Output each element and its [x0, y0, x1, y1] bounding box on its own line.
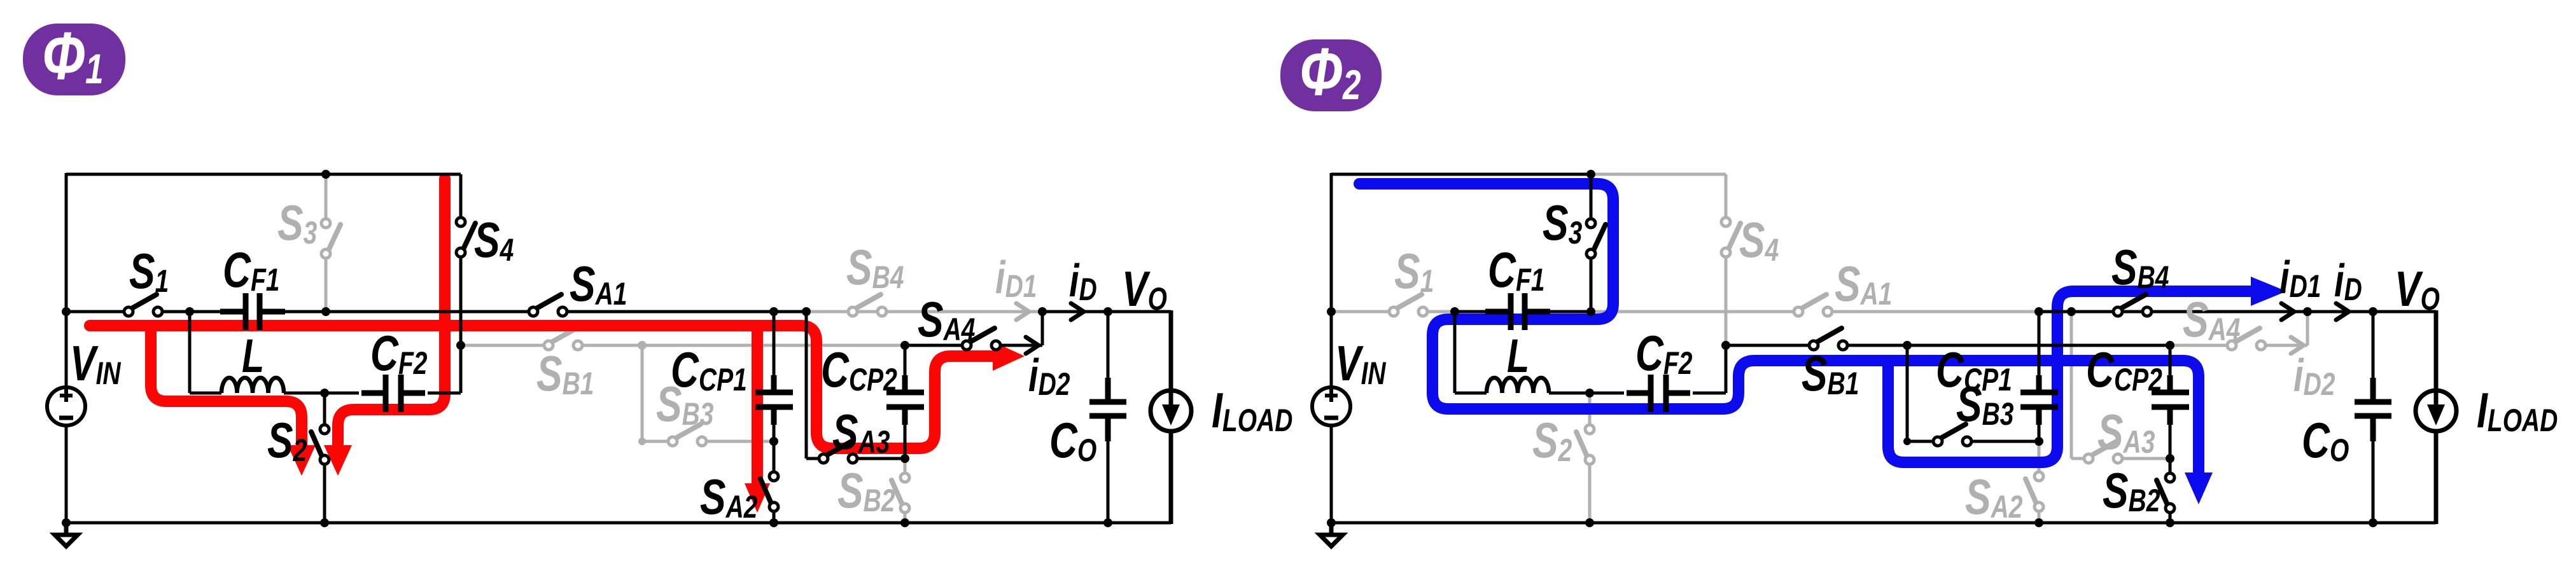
capacitor CF1: [220, 293, 285, 330]
inductor L: [221, 378, 284, 393]
svg-text:iD: iD: [2334, 255, 2362, 307]
wire S3 column upper: [1590, 174, 1593, 219]
wire rail2 SA1 to CCP1 top: [563, 310, 774, 314]
svg-text:CO: CO: [1049, 413, 1096, 468]
wire SA4 to corner: [1000, 344, 1042, 347]
label S3: [277, 195, 317, 251]
wire SB3 branch vertical: [641, 345, 644, 441]
wire SA4 corner up to output node: [1041, 312, 1044, 345]
wire rail2 node A to CF1: [1455, 310, 1488, 314]
svg-text:VIN: VIN: [70, 336, 122, 391]
junction node CO top: [1103, 307, 1112, 316]
switch SB4: [855, 294, 881, 309]
wire CCP2 bottom lead: [2169, 410, 2172, 459]
label CF2: [1635, 326, 1692, 381]
junction SB3 branch corner: [1903, 438, 1911, 445]
junction node CCP2 bottom: [2166, 454, 2174, 463]
svg-text:L: L: [1507, 330, 1529, 383]
wire S3 column lower: [325, 259, 328, 312]
svg-text:VO: VO: [2395, 261, 2440, 317]
wire red arrow into S2 left: [288, 445, 316, 476]
wire SB3 branch vertical: [1906, 345, 1909, 441]
wire blue arrow iD1: [2251, 277, 2286, 306]
wire red current path phase 1 main loop: [90, 326, 997, 448]
wire rail2 CCP1 to SA3 node: [2039, 310, 2071, 314]
label L: [1507, 330, 1529, 383]
capacitor CCP1: [2020, 375, 2058, 425]
junction node L/CF2/S2: [1585, 389, 1594, 397]
svg-text:SA2: SA2: [1965, 469, 2022, 525]
label S4: [474, 212, 514, 268]
label SB2: [2103, 463, 2160, 518]
label SA3: [832, 404, 890, 460]
capacitor CCP2: [886, 375, 924, 425]
label S2: [267, 413, 307, 468]
svg-text:SA4: SA4: [2183, 292, 2240, 347]
label SB4: [846, 240, 904, 295]
arrow iD on rail2: [1071, 303, 1084, 320]
current source ILOAD: [1151, 390, 1191, 431]
svg-text:SB2: SB2: [837, 463, 895, 518]
label SA2: [1965, 469, 2022, 525]
wire CCP1 bottom lead: [773, 410, 776, 441]
label CF2: [370, 326, 427, 381]
switch S2: [311, 432, 323, 458]
wire SB2 to ground rail: [904, 513, 907, 523]
wire S4 column lower crossing rail2: [1725, 258, 1728, 345]
junction node ground VIN: [62, 518, 71, 527]
svg-text:SA3: SA3: [832, 404, 890, 460]
wire SA3 to CCP2 bottom node: [2123, 457, 2170, 460]
wire ILOAD column upper: [1169, 310, 1173, 390]
wire rail2 output node to corner: [2307, 310, 2436, 314]
capacitor CO: [2355, 378, 2391, 441]
wire CCP2 bottom lead: [904, 410, 907, 459]
svg-text:SA1: SA1: [570, 256, 627, 312]
junction node ground S2: [320, 518, 329, 527]
wire CCP2 node to SB2: [2169, 459, 2172, 473]
switch SA3: [825, 441, 851, 456]
svg-text:iD2: iD2: [2293, 350, 2335, 402]
wire red branch S4/CF2 to S2: [338, 179, 445, 446]
wire red arrow into SA2: [745, 483, 770, 513]
svg-text:SB1: SB1: [1802, 346, 1859, 401]
wire rail2 SB4 branch to output node: [2071, 310, 2306, 314]
wire CCP1 node to SA2: [2038, 441, 2041, 472]
junction node CCP2 top: [900, 341, 909, 350]
label SA3: [2097, 404, 2155, 460]
wire inductor rail left: [190, 392, 221, 395]
junction node CO top: [2369, 307, 2377, 316]
wire top rail to S4 corner: [1591, 173, 1726, 176]
wire red current path arrow iD2: [993, 342, 1025, 371]
junction node CCP2 top: [2166, 341, 2174, 350]
wire red branch VIN to S2: [151, 326, 302, 446]
label SB3: [1956, 376, 2013, 432]
wire rail2 SA1 to CCP1 top: [1828, 310, 2039, 314]
switch SB3: [1940, 424, 1966, 439]
junction node CCP2 bottom: [900, 454, 909, 463]
wire ILOAD column lower: [1169, 431, 1173, 524]
wire inductor rail left: [1455, 392, 1487, 395]
arrow iD1 on rail2: [2281, 303, 2294, 320]
junction node S3 bottom: [321, 307, 330, 316]
wire SA3 branch vertical: [2070, 312, 2073, 459]
svg-text:CCP2: CCP2: [821, 342, 897, 397]
wire rail2 CF1 to S3 node: [1548, 310, 1591, 314]
svg-text:CF2: CF2: [370, 326, 427, 381]
svg-text:S1: S1: [129, 244, 169, 299]
label CCP1: [1936, 342, 2012, 397]
label SA1: [1835, 256, 1892, 312]
svg-text:CF2: CF2: [1635, 326, 1692, 381]
wire CO top lead: [1107, 312, 1110, 382]
junction node S3 top: [1586, 170, 1595, 179]
junction node ground SA2: [769, 518, 778, 527]
wire rail2 S1 to node A: [158, 310, 190, 314]
svg-text:iD1: iD1: [2279, 252, 2321, 304]
phase badge PHI1: [23, 18, 125, 95]
svg-text:S4: S4: [1739, 212, 1779, 268]
svg-text:S1: S1: [1394, 244, 1434, 299]
label SB3: [656, 376, 713, 432]
wire rail2 S3 node to SA1: [1591, 310, 1798, 314]
label L: [242, 330, 264, 383]
wire SB1 to CCP2 top node: [582, 344, 905, 347]
junction node SA3 branch: [2067, 307, 2076, 316]
switch S3: [328, 224, 340, 252]
wire blue current path phase 2 main loop: [1359, 184, 2199, 474]
wire SB1 rail from CF2 node: [1726, 344, 1809, 347]
wire inductor rail to CF2: [1693, 392, 1726, 395]
label SA1: [570, 256, 627, 312]
wire S4 column upper: [1725, 174, 1728, 218]
wire CCP2 top lead: [904, 345, 907, 390]
wire red current path branch to SA2: [752, 326, 763, 485]
wire SA3 branch vertical: [805, 312, 808, 459]
switch SA4: [2234, 328, 2260, 343]
wire SB3 to CCP1 bottom node: [1971, 440, 2039, 443]
wire SA3 to CCP2 bottom node: [858, 457, 905, 460]
label CCP2: [821, 342, 897, 397]
switch SB2: [2157, 480, 2168, 506]
svg-text:CCP1: CCP1: [671, 342, 747, 397]
label iD1: [2279, 252, 2321, 304]
capacitor CCP2: [2152, 375, 2189, 425]
wire S2 column lower to ground rail: [323, 464, 326, 523]
junction node CCP1 bottom: [769, 437, 778, 446]
svg-text:CO: CO: [2302, 413, 2349, 468]
label SA2: [700, 469, 757, 525]
label iD1: [995, 252, 1037, 304]
junction node A CF1-L: [1450, 307, 1459, 316]
label iD2: [2293, 350, 2335, 402]
wire blue arrow into SB2: [2185, 473, 2213, 504]
wire CO top lead: [2372, 312, 2375, 382]
wire SA4 corner up to output node: [2306, 312, 2309, 345]
svg-text:SB1: SB1: [536, 346, 594, 401]
junction node VIN/rail2: [1327, 307, 1336, 316]
wire SA4 from CCP2 top node: [905, 344, 962, 347]
label S1: [1394, 244, 1434, 299]
wire S3 column lower: [1590, 259, 1593, 312]
label SB2: [837, 463, 895, 518]
label iD: [2334, 255, 2362, 307]
wire inductor rail mid: [1549, 392, 1624, 395]
junction node CCP1 top: [769, 307, 778, 316]
switch SA3: [2090, 441, 2117, 456]
switch S4: [463, 223, 475, 251]
label ILOAD: [2477, 383, 2558, 438]
wire CCP1 top lead: [2038, 312, 2041, 390]
switch SB1: [550, 328, 577, 343]
wire rail2 node A to CF1: [190, 310, 223, 314]
wire SB3 branch horizontal left: [642, 440, 668, 443]
wire top rail to S4 corner: [326, 173, 461, 176]
wire CCP1 node to SA2: [773, 441, 776, 472]
wire SA3 branch horizontal: [806, 457, 819, 460]
wire SA3 branch horizontal: [2071, 457, 2084, 460]
wire rail2 CCP1 to SA3 node: [774, 310, 806, 314]
junction node S3 top: [321, 170, 330, 179]
label CO: [2302, 413, 2349, 468]
label S3: [1543, 195, 1582, 251]
wire SA2 to ground rail: [773, 513, 776, 523]
switch S2: [1576, 432, 1588, 458]
wire S2 column upper: [323, 393, 326, 425]
label VO: [2395, 261, 2440, 317]
wire rail2 SB4 branch to output node: [806, 310, 1041, 314]
ground symbol: [1320, 523, 1343, 546]
junction SB3 branch corner: [638, 438, 646, 445]
wire S2 column upper: [1588, 393, 1592, 425]
label VO: [1122, 261, 1167, 317]
svg-text:VIN: VIN: [1335, 336, 1387, 391]
svg-text:iD: iD: [1069, 255, 1097, 307]
wire node A down to inductor: [188, 312, 192, 393]
junction node CF2/S4/SB1: [1721, 341, 1730, 350]
phase badge PHI2: [1280, 34, 1382, 111]
wire SA2 to ground rail: [2038, 513, 2041, 523]
wire SB2 to ground rail: [2169, 513, 2172, 523]
junction node SB1/SB3 branch: [638, 341, 647, 350]
circuit phase 1: [47, 170, 1292, 546]
label S4: [1739, 212, 1779, 268]
svg-text:SA1: SA1: [1835, 256, 1892, 312]
wire S4 column upper: [459, 174, 463, 218]
junction node CCP1 bottom: [2034, 437, 2043, 446]
arrow iD1 on rail2: [1016, 303, 1029, 320]
wire S4 column lower crossing rail2: [459, 258, 463, 345]
switch S1: [1396, 294, 1422, 309]
junction node ground SA2: [2034, 518, 2043, 527]
wire CCP2 top lead: [2169, 345, 2172, 390]
wire CCP1 bottom lead: [2038, 410, 2041, 441]
junction node VIN/rail2: [62, 307, 71, 316]
voltage source VIN: [1312, 387, 1350, 425]
svg-text:CCP2: CCP2: [2086, 342, 2162, 397]
label ILOAD: [1212, 383, 1292, 438]
wire SB3 to CCP1 bottom node: [706, 440, 774, 443]
svg-text:S4: S4: [474, 212, 514, 268]
wire SB1 rail from CF2 node: [461, 344, 544, 347]
label iD: [1069, 255, 1097, 307]
wire CCP2 node to SB2: [904, 459, 907, 473]
inductor L: [1487, 378, 1549, 393]
svg-text:CCP1: CCP1: [1936, 342, 2012, 397]
label CCP1: [671, 342, 747, 397]
svg-text:SB4: SB4: [2111, 240, 2169, 295]
label SB1: [536, 346, 594, 401]
wire bottom ground rail: [66, 521, 1171, 525]
wire bottom ground rail: [1331, 521, 2436, 525]
wire rail2 VIN to S1: [66, 310, 129, 314]
capacitor CF2: [361, 375, 425, 412]
junction node ground SB2: [900, 518, 909, 527]
svg-text:iD1: iD1: [995, 252, 1037, 304]
label SA4: [918, 292, 975, 347]
svg-text:S3: S3: [1543, 195, 1582, 251]
capacitor CCP1: [755, 375, 793, 425]
wire CF2 right vertical to SB1 node: [459, 345, 463, 393]
junction node output junction: [2303, 307, 2312, 316]
junction node ground CO: [1103, 518, 1112, 527]
wire top rail VIN+ left: [1331, 173, 1591, 176]
label iD2: [1028, 350, 1070, 402]
switch SA1: [535, 294, 561, 309]
svg-text:ILOAD: ILOAD: [1212, 383, 1292, 438]
junction node SA3 branch: [802, 307, 811, 316]
wire blue branch through SB3 and CCP1 to SB4: [1888, 291, 2252, 462]
wire SB3 branch horizontal left: [1907, 440, 1933, 443]
switch SB2: [892, 480, 903, 506]
wire node A down to inductor: [1453, 312, 1457, 393]
wire left vertical VIN branch lower: [65, 425, 68, 523]
svg-text:SB2: SB2: [2103, 463, 2160, 518]
arrow iD2 on SA4 wire: [2291, 337, 2304, 354]
wire CO bottom lead: [2372, 439, 2375, 523]
voltage source VIN: [47, 387, 85, 425]
switch SB3: [675, 424, 701, 439]
label S2: [1532, 413, 1572, 468]
wire S3 column upper: [325, 174, 328, 219]
arrow iD2 on SA4 wire: [1026, 337, 1039, 354]
junction node CCP1 top: [2034, 307, 2043, 316]
capacitor CO: [1089, 378, 1126, 441]
wire left vertical VIN branch upper: [65, 173, 68, 388]
svg-text:VO: VO: [1122, 261, 1167, 317]
label CO: [1049, 413, 1096, 468]
circuit phase 2: [1312, 170, 2558, 546]
label CF1: [1488, 242, 1544, 298]
capacitor CF2: [1627, 375, 1690, 412]
svg-text:L: L: [242, 330, 264, 383]
wire inductor rail mid: [284, 392, 359, 395]
svg-text:S2: S2: [1532, 413, 1572, 468]
capacitor CF1: [1485, 293, 1550, 330]
wire red arrow into S2 right: [324, 445, 352, 476]
junction node A CF1-L: [185, 307, 194, 316]
junction node S3 bottom: [1586, 307, 1595, 316]
junction node L/CF2/S2: [320, 389, 329, 397]
junction node output junction: [1038, 307, 1047, 316]
switch SB4: [2120, 294, 2146, 309]
wire rail2 S1 to node A: [1423, 310, 1455, 314]
label VIN: [1335, 336, 1387, 391]
svg-text:SA4: SA4: [918, 292, 975, 347]
junction node ground S2: [1585, 518, 1594, 527]
switch SA4: [969, 328, 995, 343]
wire left vertical VIN branch upper: [1330, 173, 1333, 388]
svg-text:SA2: SA2: [700, 469, 757, 525]
wire SA4 from CCP2 top node: [2170, 344, 2227, 347]
switch S3: [1593, 224, 1606, 252]
svg-text:ILOAD: ILOAD: [2477, 383, 2558, 438]
wire CF2 right vertical to SB1 node: [1725, 345, 1728, 393]
wire rail2 S3 node to SA1: [326, 310, 533, 314]
junction node ground VIN: [1327, 518, 1336, 527]
svg-text:iD2: iD2: [1028, 350, 1070, 402]
wire CCP1 top lead: [773, 312, 776, 390]
junction node CF2/S4/SB1: [456, 341, 465, 350]
label SA4: [2183, 292, 2240, 347]
label S1: [129, 244, 169, 299]
svg-text:SA3: SA3: [2097, 404, 2155, 460]
svg-text:CF1: CF1: [223, 242, 279, 298]
label SB4: [2111, 240, 2169, 295]
switch SA1: [1800, 294, 1826, 309]
wire rail2 VIN to S1: [1331, 310, 1394, 314]
wire top rail VIN+ left: [66, 173, 326, 176]
switch SA2: [760, 479, 772, 505]
wire SB1 to CCP2 top node: [1847, 344, 2170, 347]
arrow iD on rail2: [2336, 303, 2349, 320]
wire ILOAD column lower: [2434, 431, 2439, 524]
wire left vertical VIN branch lower: [1330, 425, 1333, 523]
junction node ground CO: [2369, 518, 2377, 527]
label CF1: [223, 242, 279, 298]
wire SA4 to corner: [2265, 344, 2307, 347]
wire rail2 CF1 to S3 node: [283, 310, 326, 314]
switch S4: [1728, 223, 1740, 251]
wire ILOAD column upper: [2434, 310, 2439, 390]
svg-text:CF1: CF1: [1488, 242, 1544, 298]
junction node ground SB2: [2166, 518, 2174, 527]
wire S2 column lower to ground rail: [1588, 464, 1592, 523]
switch S1: [130, 294, 157, 309]
junction node SB1/SB3 branch: [1903, 341, 1912, 350]
wire CO bottom lead: [1107, 439, 1110, 523]
wire inductor rail to CF2: [428, 392, 461, 395]
current source ILOAD: [2416, 390, 2456, 431]
switch SB1: [1816, 328, 1842, 343]
label CCP2: [2086, 342, 2162, 397]
svg-text:S3: S3: [277, 195, 317, 251]
svg-text:SB4: SB4: [846, 240, 904, 295]
switch SA2: [2026, 479, 2037, 505]
label SB1: [1802, 346, 1859, 401]
label VIN: [70, 336, 122, 391]
ground symbol: [55, 523, 78, 546]
wire rail2 output node to corner: [1042, 310, 1171, 314]
